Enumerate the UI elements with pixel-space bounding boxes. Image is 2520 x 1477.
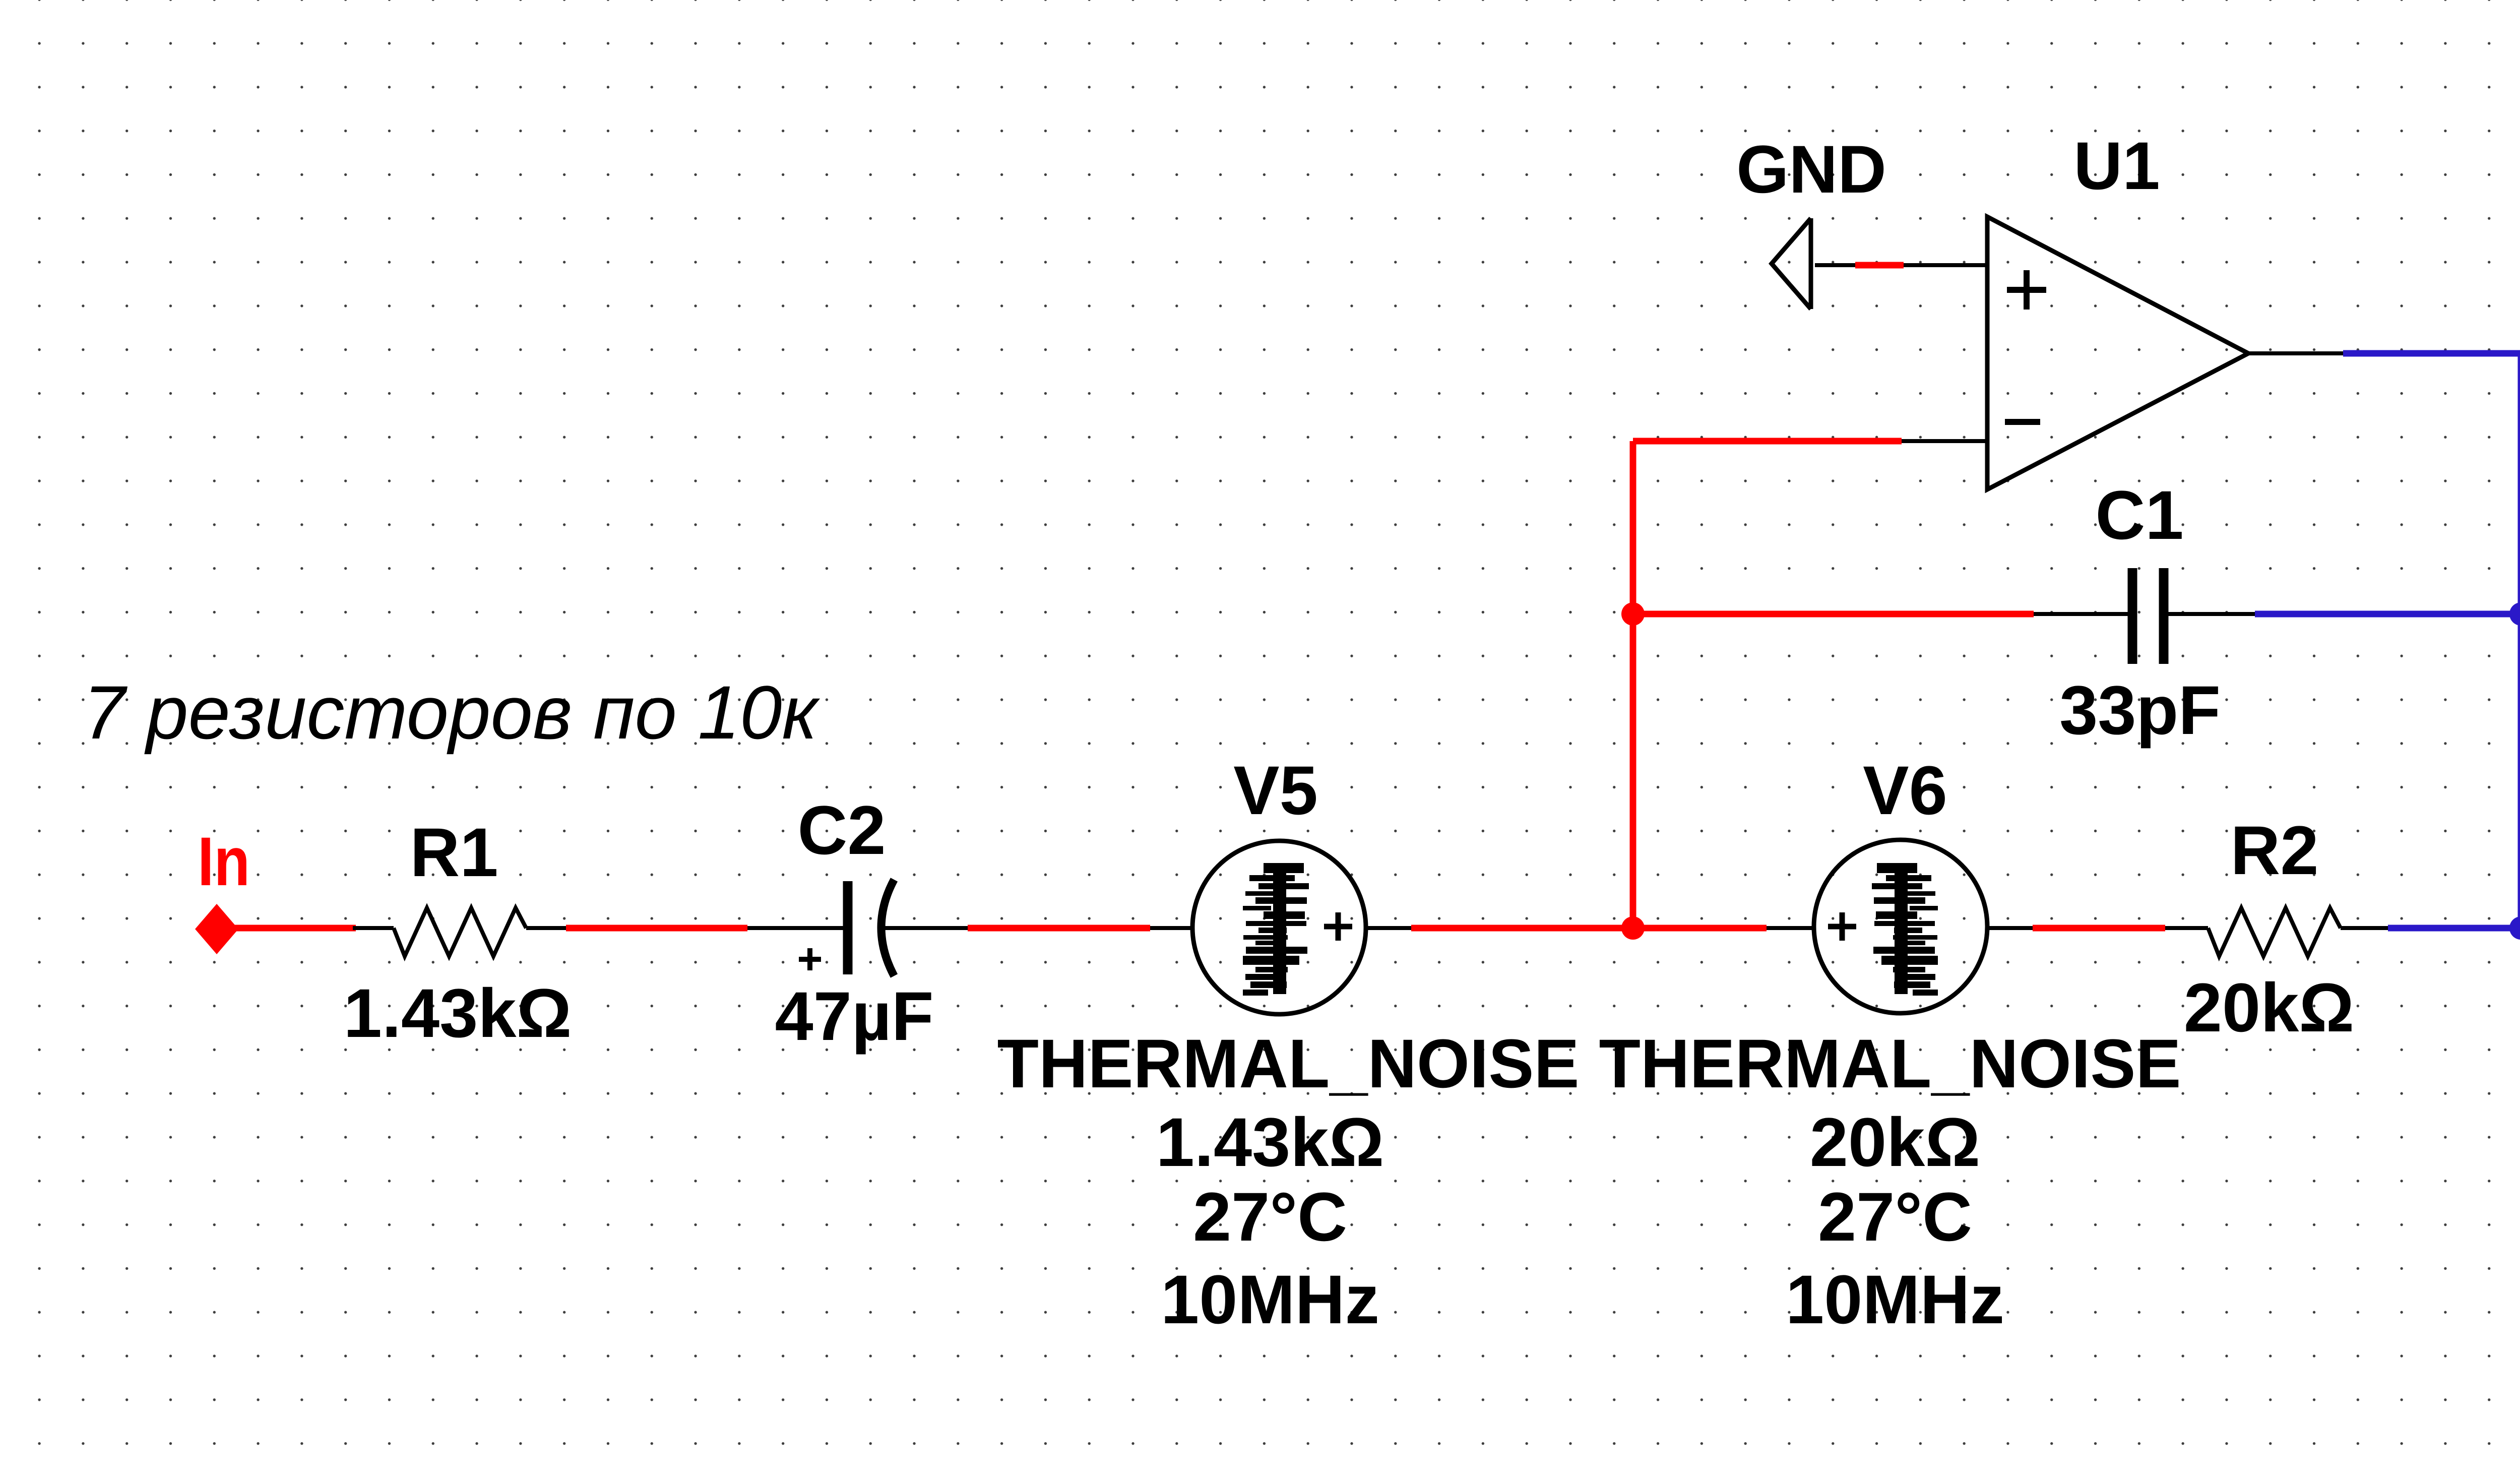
svg-text:V6: V6 (1863, 752, 1947, 829)
svg-text:R1: R1 (410, 814, 498, 891)
svg-text:R2: R2 (2230, 812, 2318, 889)
svg-text:C2: C2 (797, 792, 886, 869)
svg-text:27°C: 27°C (1193, 1179, 1347, 1256)
svg-text:1.43kΩ: 1.43kΩ (344, 975, 572, 1052)
svg-text:U1: U1 (2073, 129, 2160, 204)
svg-text:20kΩ: 20kΩ (2184, 969, 2354, 1047)
svg-text:47µF: 47µF (775, 978, 933, 1055)
svg-text:33pF: 33pF (2059, 672, 2221, 749)
svg-text:THERMAL_NOISE: THERMAL_NOISE (1599, 1025, 2181, 1102)
svg-text:V5: V5 (1233, 752, 1318, 829)
svg-text:1.43kΩ: 1.43kΩ (1156, 1104, 1384, 1181)
svg-text:C1: C1 (2095, 477, 2183, 554)
svg-text:7 резисторов по 10к: 7 резисторов по 10к (83, 670, 820, 755)
svg-text:27°C: 27°C (1818, 1179, 1972, 1256)
svg-text:GND: GND (1736, 132, 1886, 207)
svg-text:20kΩ: 20kΩ (1810, 1104, 1980, 1181)
svg-text:In: In (198, 823, 250, 900)
svg-text:10MHz: 10MHz (1786, 1261, 2004, 1338)
svg-text:THERMAL_NOISE: THERMAL_NOISE (997, 1025, 1580, 1102)
svg-text:10MHz: 10MHz (1161, 1261, 1379, 1338)
